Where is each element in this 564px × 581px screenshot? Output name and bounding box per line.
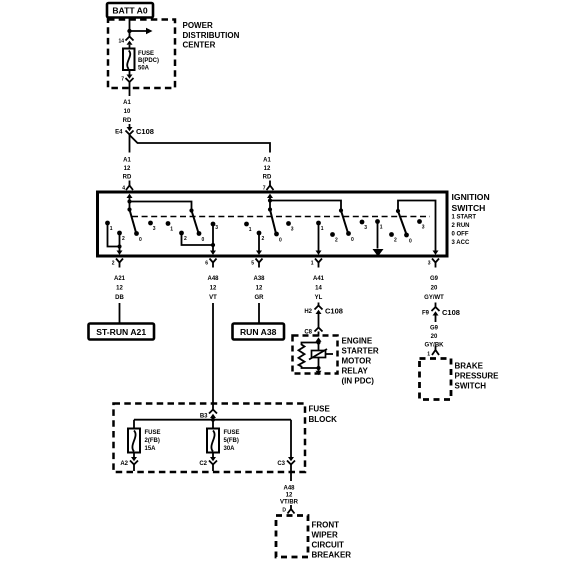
relay coil winding branch [299,343,319,369]
svg-text:C2: C2 [199,461,207,467]
svg-text:(IN PDC): (IN PDC) [342,376,375,385]
wire fuse to connector pin 7 (PDC) [129,70,131,75]
svg-text:E4: E4 [115,130,123,136]
wire label A1 12 RD (right) [263,158,272,181]
wire label to connector E4 [129,124,131,127]
switch wafer 5 blade [398,211,407,235]
brake pressure switch pin 1 terminal [427,346,439,358]
svg-text:C108: C108 [136,127,154,136]
svg-text:FUSE: FUSE [138,51,154,57]
relay top node [316,340,320,344]
svg-text:3: 3 [422,225,425,231]
svg-text:50A: 50A [138,66,150,72]
switch wafer 1 contacts [105,221,156,243]
wire pin 2 to ST-RUN A21 [119,303,121,324]
relay bottom node [316,366,320,370]
svg-text:2: 2 [394,238,397,244]
svg-text:B(PDC): B(PDC) [138,58,159,64]
svg-text:1: 1 [427,352,430,358]
connector A2 fuse block [120,453,138,472]
svg-text:A48: A48 [207,276,219,282]
svg-text:12: 12 [286,493,293,499]
svg-text:C108: C108 [442,308,460,317]
wire pin 3 to connector F9 [435,303,437,308]
svg-text:ST-RUN A21: ST-RUN A21 [96,327,146,337]
svg-text:H2: H2 [304,309,312,315]
svg-text:2: 2 [335,238,338,244]
svg-text:A48: A48 [283,486,295,492]
svg-text:1: 1 [380,225,383,231]
svg-text:10: 10 [124,109,131,115]
ignition switch pin 1 terminal [311,251,322,268]
svg-text:3: 3 [291,227,294,233]
svg-text:RD: RD [263,175,272,181]
mechanical linkage dashed line [132,216,430,218]
svg-text:A1: A1 [123,158,131,164]
node junction below BATT A0 [127,29,131,33]
wire label A21 12 DB [114,276,126,301]
wire connector 14 to fuse [129,45,131,49]
svg-text:1: 1 [110,226,113,232]
svg-text:BREAKER: BREAKER [312,551,352,560]
svg-text:G9: G9 [430,276,439,282]
svg-text:CENTER: CENTER [183,40,216,49]
arrow feed to other circuits [130,28,153,34]
wire pin 1 to connector H2 [318,303,320,306]
connector H2 C108 [304,306,343,316]
svg-text:VT: VT [209,295,217,301]
wire PDC exit down [129,82,131,96]
svg-text:3: 3 [428,261,431,267]
wire label A1 12 RD (left) [123,158,132,181]
svg-text:14: 14 [118,39,124,45]
feed bus from pin 4 to switches 1 and 2 [127,199,193,212]
relay entry arrow [316,337,322,341]
svg-text:WIPER: WIPER [312,531,338,540]
connector pin 7 of PDC [121,75,133,83]
wire H2 to relay pin C8 [318,314,320,328]
wire junction to connector pin 14 [129,31,131,37]
svg-text:C108: C108 [325,307,343,316]
switch wafer 4 blade [341,211,348,234]
fuse 5(FB) 30A [207,429,240,453]
svg-text:A1: A1 [263,158,271,164]
svg-text:3 ACC: 3 ACC [452,240,470,246]
svg-text:12: 12 [256,286,263,292]
svg-text:0: 0 [202,237,205,243]
svg-text:20: 20 [431,334,438,340]
fuse B(PDC) 50A [123,49,159,72]
label POWER DISTRIBUTION CENTER [183,21,240,49]
wire label A41 14 YL [313,276,325,301]
brake pressure switch dashed box [420,359,452,400]
connector C2 fuse block [199,453,217,472]
svg-text:BRAKE: BRAKE [455,362,484,371]
wire label A48 12 VT [207,276,219,301]
svg-text:1: 1 [170,227,173,233]
front wiper circuit breaker dashed box [276,516,308,558]
label BRAKE PRESSURE SWITCH [455,362,500,391]
switch wafer 3 blade [270,210,276,234]
svg-text:30A: 30A [224,446,236,452]
battery terminal box BATT A0 [107,3,153,18]
terminal box ST-RUN A21 [89,324,155,340]
label FUSE BLOCK [309,405,338,425]
wire pin 6 to fuse block [212,303,214,410]
svg-text:12: 12 [264,166,271,172]
fuse block bus wire [134,418,291,457]
feed bus from pin 7 to switches 3 and 4 [268,198,343,212]
svg-text:1 START: 1 START [452,215,477,221]
svg-text:0: 0 [279,238,282,244]
svg-text:GY/WT: GY/WT [424,295,444,301]
relay armature contact [309,349,333,360]
connector F9 C108 [422,307,460,317]
svg-text:GY/BK: GY/BK [424,343,444,349]
svg-text:FUSE: FUSE [224,430,240,436]
svg-text:3: 3 [153,226,156,232]
svg-text:1: 1 [249,227,252,233]
svg-text:STARTER: STARTER [342,346,379,355]
svg-text:ENGINE: ENGINE [342,336,373,345]
svg-text:1: 1 [321,226,324,232]
svg-text:2: 2 [262,236,265,242]
svg-text:12: 12 [116,286,123,292]
feed from switch 5 common to pin 3 [396,201,436,251]
svg-text:YL: YL [315,295,323,301]
svg-text:2: 2 [112,261,115,267]
svg-text:6: 6 [205,261,208,267]
svg-text:15A: 15A [145,446,157,452]
svg-text:VT/BR: VT/BR [280,500,299,506]
svg-text:14: 14 [315,286,322,292]
connector E4 C108 [115,127,154,136]
ignition switch pin 3 terminal [428,251,439,268]
engine starter motor relay dashed box [293,336,338,374]
svg-text:BATT A0: BATT A0 [112,6,148,16]
fuse 2(FB) 15A [128,429,161,453]
wire C108 to ignition switch pin 4 [129,135,131,186]
svg-text:0 OFF: 0 OFF [452,232,469,238]
svg-text:0: 0 [139,237,142,243]
label FRONT WIPER CIRCUIT BREAKER [312,521,352,560]
svg-text:CIRCUIT: CIRCUIT [312,541,345,550]
svg-text:2: 2 [184,236,187,242]
ground inside ignition switch [373,249,384,257]
svg-text:F9: F9 [422,311,430,317]
svg-text:DISTRIBUTION: DISTRIBUTION [183,31,240,40]
svg-text:A21: A21 [114,276,126,282]
svg-text:0: 0 [351,237,354,243]
connector C3 fuse block [277,457,295,471]
svg-text:1: 1 [311,261,314,267]
svg-text:PRESSURE: PRESSURE [455,372,500,381]
svg-text:A1: A1 [123,100,131,106]
svg-text:FUSE: FUSE [309,405,331,414]
wire label G9 20 GY/WT [424,276,444,301]
wire pin 5 to RUN A38 [258,303,260,324]
switch wafer 2 blade [192,211,199,234]
terminal box RUN A38 [233,324,285,340]
svg-text:C3: C3 [277,461,285,467]
wire label G9 20 GY/BK [424,326,444,349]
label IGNITION SWITCH positions [452,192,490,246]
wire C3 exit below fuse block [290,473,292,482]
connector pin 14 [118,37,133,45]
ignition switch pin 4 terminal [122,186,133,202]
svg-text:SWITCH: SWITCH [452,203,486,213]
svg-text:5: 5 [251,261,254,267]
wire switch 2 contacts to pin 6 [182,224,216,251]
wire branch C108 to ignition switch pin 7 [130,135,271,186]
svg-text:FRONT: FRONT [312,521,340,530]
wire label A1 10 RD [123,100,132,124]
svg-text:RUN A38: RUN A38 [240,327,277,337]
connector B3 fuse block [200,410,217,420]
svg-text:12: 12 [210,286,217,292]
fuse block dashed box [114,404,306,473]
svg-text:MOTOR: MOTOR [342,356,372,365]
svg-text:IGNITION: IGNITION [452,192,490,202]
svg-text:2(FB): 2(FB) [145,438,160,444]
relay center wire [318,343,320,369]
ignition switch pin 5 terminal [251,251,262,268]
ignition switch pin 7 terminal [263,186,274,201]
svg-text:5(FB): 5(FB) [224,438,239,444]
svg-text:A41: A41 [313,276,325,282]
wire stub below F9 [435,316,437,323]
svg-text:BLOCK: BLOCK [309,415,338,424]
wire switch 5 contact 1 to ground [377,222,379,249]
switch wafer 4 contacts [316,220,367,244]
wire switch 1 contacts to pin 2 [108,223,122,251]
svg-text:3: 3 [364,225,367,231]
svg-text:DB: DB [115,295,124,301]
svg-text:12: 12 [124,166,131,172]
wire switch 4 contact 1 to pin 1 [318,223,320,251]
wire label A38 12 GR [253,276,265,301]
switch wafer 5 contacts [375,219,425,244]
wire label A48 12 VT/BR [280,486,299,506]
wire BATT A0 to junction [129,18,131,32]
svg-text:2 RUN: 2 RUN [452,223,470,229]
ignition switch box [98,192,448,256]
svg-text:POWER: POWER [183,21,213,30]
wire switch 3 contact 2 to pin 5 [258,233,260,251]
relay exit arrow [316,368,322,375]
svg-text:A2: A2 [120,461,128,467]
switch wafer 3 contacts [244,221,294,243]
svg-text:7: 7 [121,77,124,83]
svg-text:A38: A38 [253,276,265,282]
svg-text:20: 20 [431,286,438,292]
svg-text:D: D [282,508,286,514]
label ENGINE STARTER MOTOR RELAY (IN PDC) [342,336,379,385]
power distribution center dashed box [108,20,175,89]
svg-text:RD: RD [123,175,132,181]
svg-text:0: 0 [409,239,412,245]
svg-text:RD: RD [123,118,132,124]
svg-text:FUSE: FUSE [145,430,161,436]
switch wafer 1 blade [130,210,137,233]
svg-text:G9: G9 [430,326,439,332]
front wiper circuit breaker pin D terminal [282,505,294,514]
svg-text:SWITCH: SWITCH [455,382,487,391]
ignition switch pin 6 terminal [205,251,216,268]
svg-text:RELAY: RELAY [342,366,369,375]
svg-text:B3: B3 [200,414,208,420]
ignition switch pin 2 terminal [112,251,123,268]
svg-text:3: 3 [215,225,218,231]
switch wafer 2 contacts [166,221,219,243]
svg-text:GR: GR [255,295,265,301]
svg-text:2: 2 [122,236,125,242]
relay pin C8 [304,328,322,337]
